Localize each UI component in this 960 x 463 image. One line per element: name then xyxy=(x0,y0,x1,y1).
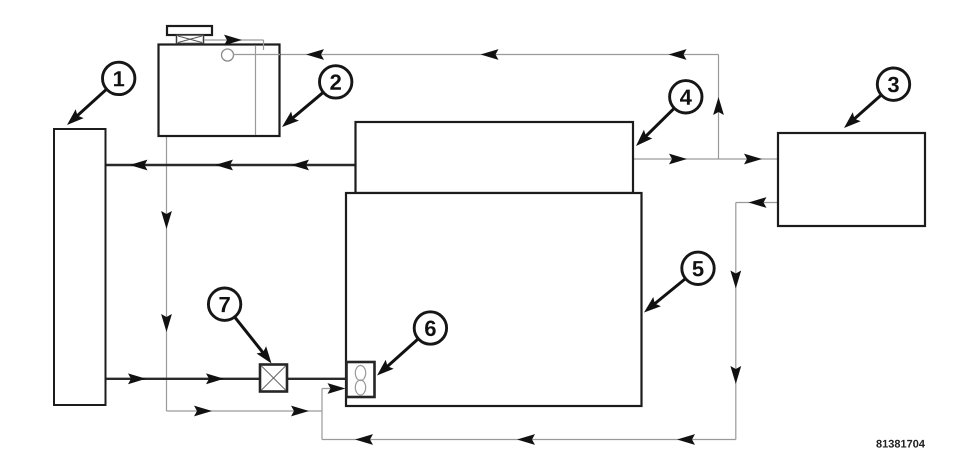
callout leader 5 xyxy=(640,279,685,318)
wire: pump feed y=388.5 xyxy=(322,388,340,390)
flow arrow left on bottom return near pump riser xyxy=(355,434,373,445)
pressure cap top xyxy=(167,26,212,35)
wire: port to return line stub xyxy=(234,54,281,56)
wire: reservoir drain x=166.5 xyxy=(166,136,168,411)
callout leader 2 xyxy=(278,92,323,131)
callout circle 4 xyxy=(670,81,702,113)
flow arrow right on drain run right xyxy=(291,406,309,417)
flow arrow down on reservoir drain lower xyxy=(161,314,172,332)
water pump 6 xyxy=(347,362,375,397)
flow arrow left on bottom return right xyxy=(677,434,695,445)
thermostat 7 xyxy=(260,365,287,392)
reservoir internal baffle line xyxy=(255,46,257,135)
intake manifold 4 xyxy=(356,122,634,193)
water pump impeller circles xyxy=(355,366,365,396)
flow arrow right on radiator outlet left xyxy=(128,373,146,384)
wire: radiator outlet hose y=378 (thick) xyxy=(106,378,347,380)
flow arrow right on radiator outlet middle xyxy=(206,373,224,384)
flow arrow right on vent line xyxy=(224,35,242,46)
flow arrow right into water pump xyxy=(328,383,346,394)
wire: heater return downcomer x=735.8 xyxy=(735,203,737,440)
callout leader 4 xyxy=(632,108,675,150)
callout circle 3 xyxy=(877,68,909,100)
flow arrow right on supply line left xyxy=(669,154,687,165)
flow arrow left on radiator inlet near radiator xyxy=(130,160,148,171)
flow arrow left on radiator inlet middle xyxy=(215,160,233,171)
flow arrow right on supply line right xyxy=(744,154,762,165)
flow arrow up on riser xyxy=(713,97,724,115)
callout circle 5 xyxy=(682,252,714,284)
callout circle 1 xyxy=(103,62,135,94)
callout circle 6 xyxy=(414,312,446,344)
flow arrow left on bottom return left xyxy=(517,434,535,445)
callout leader 6 xyxy=(373,339,418,380)
coolant reservoir 2 xyxy=(159,45,280,137)
flow arrow left on return line middle xyxy=(481,49,499,60)
callout leader 1 xyxy=(63,89,107,129)
cap neck X mark xyxy=(178,36,202,43)
wire: vent drop into reservoir x=263.5 xyxy=(263,40,265,50)
heater core 3 xyxy=(778,133,925,226)
wire: vertical riser x=718.5 from return line down to supply line xyxy=(718,55,720,160)
flow arrow left on radiator inlet right xyxy=(291,160,309,171)
callout circle 2 xyxy=(320,66,352,98)
wire: bottom return line y=439 xyxy=(322,439,736,441)
figure number label 81381704 xyxy=(876,440,925,448)
wire: radiator inlet hose y=164.5 (thick) xyxy=(106,164,356,166)
radiator 1 xyxy=(54,129,106,405)
flow arrow down on downcomer upper xyxy=(730,271,741,289)
flow arrow left on return line near reservoir xyxy=(306,49,324,60)
flow arrow down on reservoir drain upper xyxy=(161,211,172,229)
wire: supply line y=158.5 from intake manifold 4 to heater 3 xyxy=(633,158,778,160)
callout leader 3 xyxy=(840,95,881,133)
callout leader 7 xyxy=(235,317,277,367)
flow arrow right on drain run left xyxy=(194,406,212,417)
thermostat X mark xyxy=(262,366,286,390)
wire: drain run y=410.5 xyxy=(167,410,323,412)
callout circle 7 xyxy=(208,288,240,320)
wire: reservoir return line y=54.5 xyxy=(234,54,719,56)
flow arrow down on downcomer lower xyxy=(730,366,741,384)
wire: vent line y=40 from cap xyxy=(204,39,264,41)
wire: heater outlet y=202 from heater 3 left xyxy=(736,202,778,204)
flow arrow left on heater outlet stub xyxy=(749,197,767,208)
reservoir return port circle xyxy=(222,49,234,61)
flow arrow left on return line right xyxy=(669,49,687,60)
pressure cap neck xyxy=(177,35,204,44)
wire: riser to water pump x=322 xyxy=(321,389,323,440)
engine 5 xyxy=(346,193,642,406)
